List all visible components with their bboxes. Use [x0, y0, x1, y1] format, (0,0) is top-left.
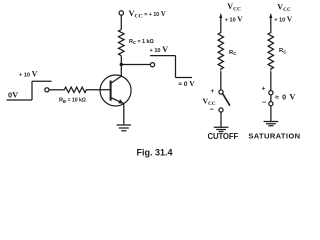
- CUTOFF: resistor RC: [218, 31, 223, 71]
- ground main: [117, 125, 131, 131]
- SATURATION: closed switch blade: [270, 95, 272, 102]
- SATURATION: wire switch to ground: [270, 106, 272, 122]
- CUTOFF: switch bottom contact: [219, 108, 223, 112]
- svg-text:+ 10 V: + 10 V: [225, 15, 244, 24]
- svg-text:+: +: [211, 88, 215, 95]
- wire input terminal to RB: [49, 89, 62, 91]
- CUTOFF: wire arrow to RC: [220, 28, 222, 31]
- wire RB to base: [88, 89, 111, 91]
- SATURATION: wire RC to switch: [270, 71, 272, 90]
- CUTOFF: wire RC to switch: [220, 71, 222, 90]
- svg-text:0V: 0V: [8, 91, 18, 100]
- svg-text:+: +: [262, 85, 266, 92]
- CUTOFF: ground: [214, 127, 229, 131]
- transistor emitter diagonal: [111, 98, 124, 104]
- SATURATION: wire arrow to RC: [270, 28, 272, 31]
- emitter wire down: [123, 104, 125, 125]
- wire junction to output terminal: [121, 64, 150, 66]
- svg-text:VCC: VCC: [227, 2, 241, 13]
- transistor base bar: [110, 81, 112, 101]
- CUTOFF: open switch blade: [223, 94, 230, 106]
- resistor RB: [62, 87, 88, 92]
- svg-text:VCC: VCC: [277, 3, 291, 14]
- output terminal node: [150, 63, 154, 67]
- junction node dot: [120, 63, 123, 66]
- emitter arrowhead: [118, 99, 124, 104]
- svg-text:VCC = + 10 V: VCC = + 10 V: [129, 8, 166, 20]
- transistor Q1 circle: [100, 75, 131, 106]
- svg-text:+ 10 V: + 10 V: [150, 45, 169, 54]
- svg-text:≈ 0 V: ≈ 0 V: [178, 79, 195, 88]
- output waveform high level line: [150, 55, 176, 57]
- VCC terminal node: [119, 11, 123, 15]
- CUTOFF: switch top contact: [219, 90, 223, 94]
- svg-text:RC = 1 kΩ: RC = 1 kΩ: [129, 39, 154, 45]
- input waveform low level line: [7, 99, 33, 101]
- svg-text:−: −: [210, 107, 214, 114]
- output waveform low level line: [176, 77, 193, 79]
- input waveform high level line: [32, 80, 52, 82]
- SATURATION: ground: [264, 122, 279, 126]
- svg-text:+ 10 V: + 10 V: [19, 70, 38, 79]
- svg-text:RC: RC: [279, 48, 287, 54]
- svg-text:RB = 10 kΩ: RB = 10 kΩ: [59, 98, 86, 104]
- svg-text:+ 10 V: + 10 V: [274, 15, 293, 24]
- svg-text:−: −: [262, 100, 266, 107]
- wire junction to RC: [120, 56, 122, 65]
- svg-text:SATURATION: SATURATION: [248, 132, 300, 141]
- SATURATION: switch bottom contact: [269, 102, 273, 106]
- input waveform rising edge: [31, 81, 33, 100]
- SATURATION: resistor RC: [268, 31, 273, 71]
- output waveform falling edge: [175, 56, 177, 78]
- svg-text:Fig. 31.4: Fig. 31.4: [137, 148, 173, 158]
- CUTOFF: wire switch to ground: [220, 112, 222, 127]
- collector wire up to junction: [120, 65, 122, 77]
- transistor collector diagonal: [111, 76, 122, 83]
- svg-text:CUTOFF: CUTOFF: [208, 132, 239, 141]
- svg-text:RC: RC: [229, 50, 237, 56]
- wire RC to VCC terminal: [120, 15, 122, 29]
- input terminal node: [45, 88, 49, 92]
- SATURATION: switch top contact: [269, 91, 273, 95]
- SATURATION: VCC arrow: [270, 16, 272, 28]
- resistor RC: [119, 30, 125, 56]
- svg-text:≈ 0 V: ≈ 0 V: [275, 92, 296, 101]
- CUTOFF: VCC arrow: [220, 16, 222, 28]
